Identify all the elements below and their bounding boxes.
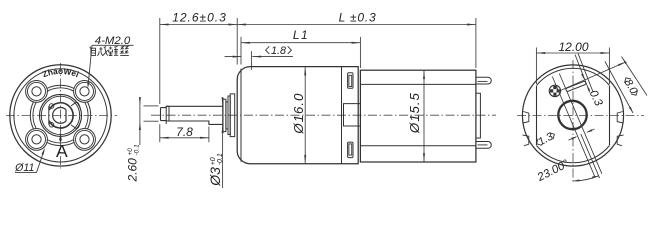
motor can flat edge bottom [360, 145, 476, 147]
screw boss lobe 3 [74, 129, 96, 151]
motor terminal bottom [476, 142, 491, 149]
C-clip ear top-right [71, 102, 80, 107]
motor can body [360, 70, 476, 162]
dim 12.00 [536, 52, 609, 54]
output shaft D-hole [53, 108, 66, 124]
dim 0.3 arrows [581, 74, 584, 80]
screw hole 1 [32, 87, 41, 96]
screw hole 3 [80, 135, 89, 144]
svg-text:A: A [56, 141, 68, 161]
motor front bearing pocket [344, 104, 361, 126]
screw boss lobe 4 [26, 129, 48, 151]
dim (1.8) extension line [250, 51, 252, 70]
svg-text:2.60: 2.60 [126, 158, 140, 183]
gearbox face outer circle [10, 65, 111, 166]
phi11 leader [37, 150, 45, 173]
rim notch left lower [523, 135, 529, 146]
svg-text:-0.1: -0.1 [217, 153, 224, 165]
gearbox face extension line up [236, 18, 238, 65]
23 deg line [581, 134, 600, 178]
leader to screw hole [88, 45, 92, 86]
dim L1 [241, 42, 360, 44]
dim phi3 line [222, 97, 224, 188]
dim (8.0) line [605, 62, 633, 114]
dim 12.00 extension lines [535, 48, 537, 85]
motor can circle top arc [537, 68, 610, 85]
dim L extension right [475, 18, 477, 68]
motor flat left [536, 86, 538, 145]
center boss circles [40, 94, 82, 136]
terminal axis line pair (23 deg) [559, 74, 602, 174]
C-clip retaining ring [49, 103, 73, 128]
screw hole 2 [80, 87, 89, 96]
rear view: horizontal centerline [517, 115, 644, 117]
svg-text:+0: +0 [210, 157, 217, 165]
svg-text:-0.1: -0.1 [134, 144, 141, 156]
rim notch left upper [523, 112, 529, 124]
svg-text:1.8: 1.8 [271, 45, 286, 57]
C-clip chord [48, 106, 50, 124]
svg-text:Ø15.5: Ø15.5 [407, 92, 422, 134]
rear view: vertical centerline [572, 60, 574, 184]
dim phi16.0 [304, 67, 306, 164]
motor terminal top [476, 77, 491, 84]
svg-text:Ø16.0: Ø16.0 [291, 93, 306, 135]
terminal B (edge view slot) [566, 81, 587, 92]
gearbox outline circle [522, 65, 623, 166]
dim (1.8) [225, 56, 242, 58]
svg-text:Ø3: Ø3 [207, 167, 223, 187]
face platform band arcs [88, 102, 91, 129]
screw boss lobe 2 [74, 81, 96, 103]
motor mounting screw bottom [348, 142, 353, 158]
svg-text:0.3: 0.3 [587, 88, 605, 108]
rim notch right lower [617, 135, 623, 146]
bearing boss circle [558, 101, 586, 129]
terminal A (end view) [549, 85, 560, 96]
dim 23.00 text [535, 158, 571, 184]
screw hole 4 [32, 135, 41, 144]
motor mounting screw top [348, 73, 353, 89]
svg-text:12.00: 12.00 [558, 40, 588, 54]
gearbox face rim circle [14, 69, 107, 162]
screw boss lobe 1 [26, 81, 48, 103]
motor can circle bottom arc [537, 146, 610, 163]
svg-text:7.8: 7.8 [176, 125, 193, 139]
dim L1 extension line [240, 37, 242, 65]
shaft collar rings [223, 99, 226, 131]
dim phi15.5 [423, 70, 425, 162]
dim (1.3) arrows [569, 137, 577, 140]
dim 7.8 extension lines [159, 124, 161, 142]
svg-text:12.6±0.3: 12.6±0.3 [172, 11, 227, 25]
rim notch right upper [617, 112, 623, 124]
motor shaft outline [166, 106, 223, 124]
motor endcap boss [476, 93, 481, 138]
dim 12.6±0.3 extension line left [159, 18, 161, 104]
dim L±0.3 [237, 24, 476, 26]
C-clip ear bottom-right [71, 124, 80, 129]
datum A arrow [59, 134, 62, 141]
phi11 underline [15, 172, 37, 174]
dim 2.60 extension lines [144, 105, 159, 107]
leader through terminals [557, 63, 625, 93]
dim (1.3) text [534, 129, 557, 149]
label underline [92, 44, 134, 46]
dim 2.60+0/-0.1 [139, 101, 141, 145]
left view: horizontal centerline [6, 114, 117, 116]
gearbox rear plate line [341, 67, 343, 164]
dim (1.8) angle brackets [266, 46, 292, 54]
shaft chamfer lines [165, 106, 167, 124]
motor can flat edge top [360, 83, 476, 85]
dim 12.6±0.3 [160, 24, 237, 26]
dim 0.3 lines [575, 55, 590, 93]
left view: vertical centerline [60, 63, 62, 169]
shaft tip (2.6 flat section) [161, 106, 170, 121]
svg-text:ZhaoWei: ZhaoWei [41, 66, 80, 79]
svg-text:L1: L1 [293, 28, 309, 42]
C-clip tip circles [49, 104, 54, 109]
side view: centerline [151, 114, 496, 116]
label Chinese: self-tapping screws [90, 46, 129, 56]
gearbox body [237, 67, 358, 164]
gearbox front plate line [240, 69, 242, 162]
dim 23.00 deg arc [573, 176, 599, 181]
dim 7.8 [160, 137, 209, 139]
motor flat right [609, 86, 611, 145]
svg-text:L ±0.3: L ±0.3 [339, 11, 377, 25]
